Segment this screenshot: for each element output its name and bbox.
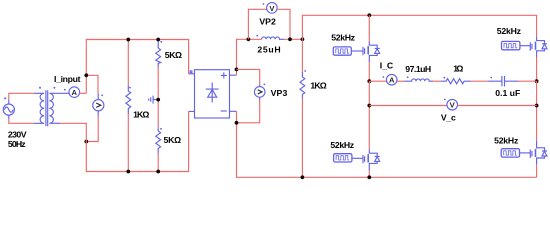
node left Vc tap bbox=[367, 104, 371, 108]
node S3 rail bbox=[367, 175, 371, 179]
diode bridge BD1 bbox=[189, 70, 237, 118]
svg-text:1Ω: 1Ω bbox=[453, 64, 463, 74]
ac source VSIN 230V bbox=[3, 97, 14, 119]
wire to VP3 top bbox=[237, 69, 260, 84]
node 1K top bbox=[126, 38, 130, 42]
node ground tap bbox=[156, 98, 160, 102]
node 1K right rail bbox=[301, 175, 305, 179]
node right midpoint bbox=[535, 79, 539, 83]
wire cap to right leg bbox=[518, 80, 537, 82]
wire bridge minus down and bottom rail bbox=[237, 111, 537, 177]
ground bbox=[149, 96, 159, 104]
wire 5K middle bbox=[157, 67, 159, 127]
transformer core bbox=[46, 90, 48, 126]
svg-text:V: V bbox=[269, 4, 275, 13]
igbt Q1 bbox=[363, 42, 380, 63]
wire source top bbox=[9, 93, 34, 99]
node minus tap bbox=[235, 121, 239, 125]
wire 1K left top bbox=[127, 40, 129, 87]
transformer TX primary winding bbox=[34, 93, 44, 123]
ammeter I_input bbox=[69, 87, 80, 98]
gating block G2 52kHz bbox=[502, 41, 531, 49]
wire branch to voltmeter top bbox=[86, 75, 98, 93]
wire S4 emitter bbox=[536, 164, 538, 177]
wire bridge plus up to main line bbox=[237, 39, 262, 75]
wire coil to riser bbox=[284, 38, 302, 40]
wire source bottom bbox=[9, 119, 34, 123]
igbt Q2 bbox=[530, 37, 547, 57]
node top bus bbox=[367, 13, 371, 17]
capacitor C1 0.1uF bbox=[488, 76, 518, 86]
wire VP2 right drop bbox=[277, 9, 290, 39]
transformer phase dots bbox=[39, 87, 55, 89]
resistor R5 5Kohm bottom bbox=[156, 127, 161, 153]
wire S2 emitter bbox=[536, 57, 538, 81]
svg-text:I_input: I_input bbox=[54, 74, 81, 84]
wire 1K right top bbox=[301, 39, 303, 72]
svg-text:V_c: V_c bbox=[441, 112, 456, 122]
voltmeter V secondary bbox=[93, 94, 104, 117]
node A1 bbox=[84, 73, 88, 77]
wire voltmeter bottom return bbox=[86, 117, 98, 142]
svg-text:I_C: I_C bbox=[380, 61, 394, 71]
node plus tap bbox=[235, 68, 239, 72]
svg-text:52kHz: 52kHz bbox=[331, 32, 355, 42]
svg-text:A: A bbox=[389, 76, 395, 85]
gating block G3 52kHz bbox=[334, 154, 363, 162]
node 5K rail bbox=[156, 170, 160, 174]
wire right leg middle bbox=[536, 81, 538, 141]
transformer TX secondary winding bbox=[49, 93, 69, 123]
svg-text:50Hz: 50Hz bbox=[8, 139, 26, 149]
resistor R3 1Kohm right bbox=[300, 72, 305, 98]
gating block G1 52kHz bbox=[333, 47, 363, 55]
svg-text:52kHz: 52kHz bbox=[497, 26, 522, 36]
wire resistor to cap bbox=[471, 80, 489, 82]
wire 5K bottom to rail bbox=[157, 153, 159, 172]
svg-text:VP2: VP2 bbox=[259, 16, 276, 26]
resistor R2 5Kohm top bbox=[156, 40, 161, 68]
node B1 bbox=[84, 140, 88, 144]
voltmeter VP3 bbox=[254, 84, 265, 100]
svg-text:230V: 230V bbox=[8, 130, 27, 140]
wire net A riser top rail and drop to bridge bbox=[86, 40, 188, 94]
node right Vc tap bbox=[535, 104, 539, 108]
inductor L2 97.1uH bbox=[405, 79, 434, 81]
svg-text:25uH: 25uH bbox=[257, 44, 280, 54]
wire S3 emitter bbox=[368, 171, 370, 178]
wire 1K right bottom bbox=[301, 98, 303, 178]
wire VP3 bottom bbox=[237, 100, 260, 123]
gating block G4 52kHz bbox=[501, 149, 530, 157]
svg-text:1KΩ: 1KΩ bbox=[310, 80, 326, 90]
svg-text:97.1uH: 97.1uH bbox=[405, 64, 431, 74]
svg-text:V: V bbox=[450, 101, 456, 110]
resistor R1 1Kohm left bbox=[126, 86, 131, 114]
svg-text:VP3: VP3 bbox=[271, 88, 288, 98]
wire Vc line left bbox=[369, 105, 447, 107]
svg-text:5KΩ: 5KΩ bbox=[165, 50, 182, 60]
igbt Q4 bbox=[530, 141, 547, 164]
wire ammeter to inductor bbox=[397, 80, 405, 82]
wire 1K left bottom bbox=[127, 114, 129, 172]
wire net B secondary bottom rail and rise to bridge bbox=[60, 111, 189, 171]
svg-text:52kHz: 52kHz bbox=[494, 135, 519, 145]
inductor L1 25uH bbox=[262, 37, 284, 39]
wire top bus bbox=[302, 15, 536, 39]
wire left leg middle bbox=[368, 81, 370, 149]
svg-text:A: A bbox=[72, 88, 78, 97]
voltmeter VP2 bbox=[267, 3, 278, 14]
wire VP2 left drop bbox=[248, 9, 266, 39]
svg-text:0.1 uF: 0.1 uF bbox=[495, 88, 520, 98]
node 1K bottom bbox=[126, 170, 130, 174]
svg-text:52kHz: 52kHz bbox=[330, 140, 354, 150]
wire load line left bbox=[369, 80, 386, 82]
wire Vc line right bbox=[457, 105, 536, 107]
resistor R4 1ohm bbox=[441, 79, 471, 84]
node left midpoint bbox=[367, 79, 371, 83]
wire ammeter to riser bbox=[80, 92, 87, 94]
wire S1 emitter bbox=[368, 62, 370, 81]
svg-text:1KΩ: 1KΩ bbox=[133, 109, 149, 119]
node riser bbox=[301, 37, 305, 41]
igbt Q3 bbox=[363, 149, 380, 170]
voltmeter V_c bbox=[447, 99, 458, 110]
node VP2 right bbox=[288, 37, 292, 41]
wire S1 collector bbox=[368, 15, 370, 41]
node VP2 left bbox=[247, 37, 251, 41]
wire inductor to resistor bbox=[433, 80, 441, 82]
node 5K top bbox=[156, 38, 160, 42]
svg-text:5KΩ: 5KΩ bbox=[164, 135, 182, 145]
ammeter I_C bbox=[386, 74, 397, 85]
